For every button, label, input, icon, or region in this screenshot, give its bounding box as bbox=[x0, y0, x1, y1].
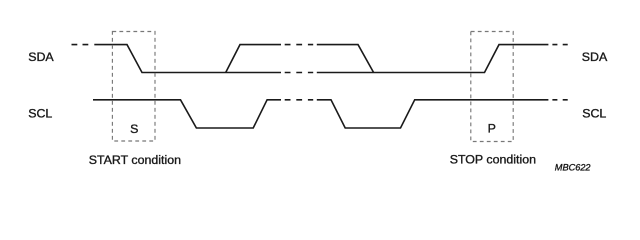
caption START condition bbox=[89, 153, 181, 167]
SDA low line to STOP rising edge bbox=[317, 45, 549, 73]
label SCL right bbox=[582, 106, 606, 120]
svg-text:MBC622: MBC622 bbox=[555, 162, 591, 172]
svg-text:START condition: START condition bbox=[89, 153, 181, 167]
svg-text:P: P bbox=[488, 121, 496, 135]
STOP condition dashed box P bbox=[471, 32, 513, 142]
figure id MBC622 bbox=[555, 162, 591, 172]
SDA right dashed high segment bbox=[552, 44, 568, 46]
label SCL left bbox=[28, 106, 52, 120]
SDA high plateau after break with falling edge bbox=[317, 45, 374, 73]
svg-text:S: S bbox=[130, 122, 138, 136]
svg-text:STOP condition: STOP condition bbox=[450, 153, 536, 167]
label S in start box bbox=[130, 122, 138, 136]
SDA mid rising edge and high plateau bbox=[226, 45, 281, 73]
svg-text:SDA: SDA bbox=[582, 50, 608, 64]
label SDA left bbox=[28, 50, 54, 64]
SDA high line into START falling edge bbox=[94, 45, 281, 73]
SDA mid break dashes high bbox=[285, 44, 314, 46]
SCL right dashed high segment bbox=[552, 99, 568, 101]
label P in stop box bbox=[488, 121, 496, 135]
caption STOP condition bbox=[450, 153, 536, 167]
SCL main waveform bbox=[93, 100, 281, 128]
svg-text:SCL: SCL bbox=[28, 106, 52, 120]
SCL mid break dashes bbox=[285, 99, 314, 101]
svg-text:SCL: SCL bbox=[582, 106, 606, 120]
START condition dashed box S bbox=[112, 32, 155, 142]
SCL second pulse and high line bbox=[317, 100, 549, 128]
svg-text:SDA: SDA bbox=[28, 50, 54, 64]
label SDA right bbox=[582, 50, 608, 64]
SDA left dashed high segment bbox=[72, 44, 90, 46]
SDA mid break dashes low bbox=[285, 72, 314, 74]
